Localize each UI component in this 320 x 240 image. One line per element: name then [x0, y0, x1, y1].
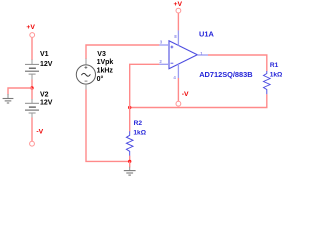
- ground GND2 (below R2): [124, 167, 136, 175]
- svg-text:+V: +V: [174, 1, 183, 8]
- wire op-amp output to R1 top: [208, 55, 267, 71]
- svg-text:12V: 12V: [40, 100, 53, 107]
- wire op-amp V- to -V terminal: [177, 78, 179, 101]
- ground GND1 (left): [3, 94, 14, 103]
- junction dot ground node: [128, 160, 131, 163]
- wire R2 bottom to ground junction: [129, 156, 131, 162]
- node +V terminal (left, above V1): [26, 24, 35, 37]
- svg-text:1kΩ: 1kΩ: [270, 71, 283, 78]
- wire V3 negative to ground junction: [86, 90, 130, 162]
- svg-text:V2: V2: [40, 92, 49, 99]
- wire inverting node to op-amp pin 2: [130, 64, 160, 107]
- svg-text:V1: V1: [40, 51, 49, 58]
- resistor R2: [126, 131, 133, 156]
- junction dot inverting node: [128, 106, 131, 109]
- svg-text:0°: 0°: [97, 75, 104, 83]
- svg-text:-V: -V: [36, 129, 43, 136]
- battery V1: [25, 60, 39, 80]
- svg-text:-V: -V: [182, 91, 189, 98]
- svg-text:V3: V3: [97, 51, 106, 58]
- svg-text:1kHz: 1kHz: [97, 68, 114, 75]
- op-amp input stub pin 2: [159, 63, 169, 65]
- svg-text:AD712SQ/883B: AD712SQ/883B: [199, 70, 252, 79]
- svg-text:1Vpk: 1Vpk: [97, 59, 114, 66]
- wire +V terminal to op-amp V+: [177, 13, 179, 30]
- node +V terminal (above op-amp): [174, 1, 183, 13]
- svg-text:+V: +V: [26, 24, 35, 31]
- wire junction to V2 positive: [31, 88, 33, 100]
- wire V2 negative to -V terminal: [31, 118, 33, 142]
- node -V terminal (below op-amp): [176, 91, 189, 106]
- wire junction to ground GND1: [8, 88, 32, 95]
- svg-text:R1: R1: [270, 62, 279, 69]
- wire inverting node to R2 top: [129, 108, 131, 132]
- svg-text:R2: R2: [134, 120, 143, 127]
- wire V1 negative to junction: [31, 80, 33, 89]
- op-amp input stub pin 3: [159, 44, 169, 46]
- svg-text:1kΩ: 1kΩ: [133, 129, 146, 136]
- op-amp output stub pin 1: [197, 54, 208, 56]
- op-amp minus sign (inverting input marker): [171, 62, 174, 64]
- svg-text:U1A: U1A: [199, 30, 214, 39]
- AC source V3: [76, 59, 95, 91]
- junction dot at V1-/V2+: [30, 86, 33, 89]
- wire ground node to GND2: [129, 161, 131, 167]
- wire V3 positive to op-amp pin 3: [86, 45, 159, 59]
- op-amp V+ power stub pin 8: [177, 30, 179, 45]
- wire +V terminal to V1 positive: [31, 38, 33, 60]
- op-amp U1A triangle: [169, 41, 197, 69]
- op-amp plus sign (non-inverting input marker): [171, 46, 174, 49]
- battery V2: [25, 99, 39, 118]
- op-amp V- power stub pin 4: [177, 64, 179, 78]
- node -V terminal (left, below V2): [30, 129, 44, 147]
- resistor R1: [264, 71, 271, 94]
- svg-text:12V: 12V: [40, 61, 53, 68]
- wire R1 bottom to inverting node: [130, 94, 267, 107]
